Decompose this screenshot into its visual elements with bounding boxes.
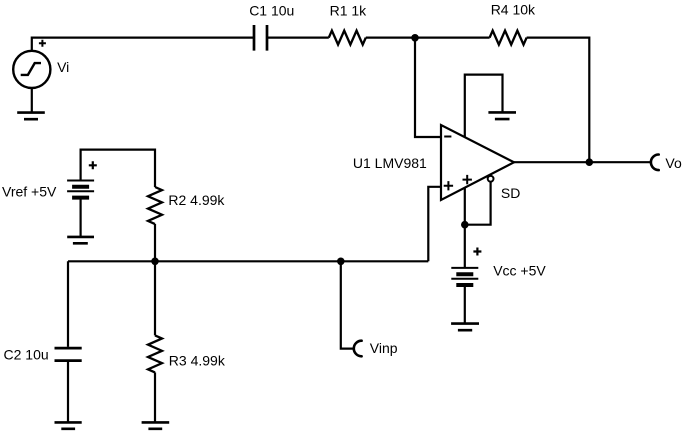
wire V- supply to ground [465, 75, 503, 138]
svg-text:Vi: Vi [57, 59, 69, 75]
svg-text:SD: SD [501, 185, 520, 201]
node junction R2/R3 [151, 258, 159, 266]
wire inverting input [415, 38, 441, 137]
capacitor C1 [254, 25, 267, 51]
node junction Vcc [461, 221, 469, 229]
capacitor C2 [55, 348, 82, 361]
wire non-inverting input [428, 187, 441, 261]
ground (Vref) [67, 237, 94, 243]
resistor R2 [148, 187, 162, 224]
op-amp U1 [441, 125, 514, 200]
svg-text:U1 LMV981: U1 LMV981 [353, 155, 427, 171]
svg-text:R2 4.99k: R2 4.99k [168, 192, 225, 208]
wire R4 to output node [527, 38, 590, 163]
wire bus to R3 [154, 261, 156, 335]
wire Vref bottom [79, 198, 81, 237]
ground (Vi) [17, 113, 45, 120]
wire Vref top to R2 [81, 150, 155, 187]
terminal Vo [651, 155, 659, 171]
wire R1 to R4 [366, 36, 490, 38]
ground (R3) [142, 422, 170, 428]
svg-text:Vinp: Vinp [370, 340, 398, 356]
wire node to Vcc battery [464, 225, 466, 268]
svg-text:C1 10u: C1 10u [249, 3, 294, 19]
ground (Vcc) [451, 324, 479, 331]
svg-text:Vo: Vo [665, 155, 682, 171]
wire SD to Vcc node [465, 182, 491, 225]
wire bus to Vinp terminal [341, 261, 354, 348]
wire bus to C2 [67, 261, 69, 347]
svg-text:Vcc +5V: Vcc +5V [493, 263, 546, 279]
node junction Vinp [337, 258, 345, 266]
svg-text:C2 10u: C2 10u [4, 347, 49, 363]
node junction feedback [411, 34, 419, 42]
svg-text:R3 4.99k: R3 4.99k [169, 353, 226, 369]
terminal Vinp [354, 341, 362, 357]
wire R3 to ground [154, 372, 156, 422]
wire R2 to bus [154, 224, 156, 261]
wire Vi bottom [31, 88, 33, 113]
pin SD [488, 176, 494, 182]
resistor R1 [329, 31, 366, 45]
svg-text:R1 1k: R1 1k [330, 3, 368, 19]
ground (C2) [55, 422, 82, 428]
wire bus [68, 260, 428, 262]
ground (op-amp V-) [488, 112, 516, 119]
wire op-amp output [514, 161, 651, 163]
resistor R3 [148, 335, 162, 372]
svg-text:R4 10k: R4 10k [491, 1, 536, 17]
wire V+ supply pin [464, 188, 466, 225]
wire Vi top to C1 [32, 38, 253, 51]
resistor R4 [490, 31, 527, 45]
wire C2 to ground [67, 362, 69, 423]
voltage source Vi [13, 40, 50, 88]
node junction output [586, 158, 594, 166]
wire C1 to R1 [268, 36, 329, 38]
battery Vcc [451, 248, 481, 286]
wire Vcc battery to ground [464, 285, 466, 324]
battery Vref [67, 161, 97, 197]
svg-text:Vref +5V: Vref +5V [2, 183, 57, 199]
